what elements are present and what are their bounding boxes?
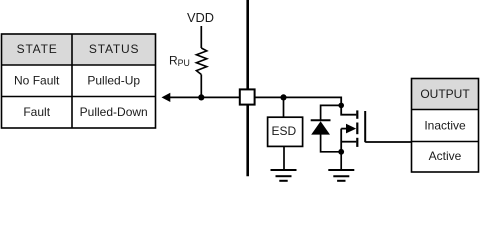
wire source to ground	[340, 152, 342, 170]
ESD cell box	[268, 117, 303, 146]
svg-text:VDD: VDD	[187, 10, 214, 25]
svg-text:STATUS: STATUS	[89, 42, 139, 56]
chip boundary	[246, 0, 249, 176]
junction dot ESD branch	[280, 94, 286, 100]
body/source vertical	[340, 129, 342, 152]
pin square	[240, 89, 255, 104]
output table	[412, 79, 479, 173]
body arrow	[346, 124, 356, 134]
diode D1 (body diode to ground)	[311, 120, 331, 134]
wire VDD to resistor	[200, 26, 202, 48]
svg-text:Inactive: Inactive	[424, 119, 466, 133]
svg-text:Pulled-Down: Pulled-Down	[80, 105, 148, 119]
svg-text:No Fault: No Fault	[14, 74, 60, 88]
ground (ESD)	[271, 170, 297, 181]
drain lead	[341, 105, 356, 114]
svg-text:STATE: STATE	[17, 42, 58, 56]
body lead	[341, 128, 348, 130]
svg-text:Active: Active	[429, 149, 462, 163]
wire resistor to node	[200, 75, 202, 98]
source lead	[341, 141, 356, 143]
junction dot drain node	[338, 103, 344, 109]
middle channel segment	[356, 123, 358, 135]
svg-text:Fault: Fault	[23, 105, 50, 119]
gate bar	[364, 111, 366, 142]
junction dot source node	[338, 149, 344, 155]
source channel segment	[356, 138, 358, 147]
drain channel segment	[356, 110, 358, 118]
state/status table	[2, 34, 156, 128]
wire diode anode to source node	[321, 134, 342, 152]
arrowhead to status table	[162, 93, 171, 102]
transistor M1 open-drain NMOS	[341, 105, 411, 151]
svg-text:OUTPUT: OUTPUT	[420, 87, 470, 101]
resistor RPU	[196, 48, 206, 75]
svg-text:Pulled-Up: Pulled-Up	[87, 74, 140, 88]
gate lead to output	[365, 141, 411, 143]
wire ESD branch	[283, 97, 285, 117]
wire ESD to ground	[283, 147, 285, 170]
ground (MOSFET source)	[328, 170, 354, 181]
wire drain node to diode cathode	[321, 105, 342, 119]
junction dot pull-up node	[198, 94, 204, 100]
svg-text:ESD: ESD	[272, 124, 297, 138]
wire pin to drain node	[255, 97, 342, 105]
wire node to arrow	[167, 96, 241, 98]
